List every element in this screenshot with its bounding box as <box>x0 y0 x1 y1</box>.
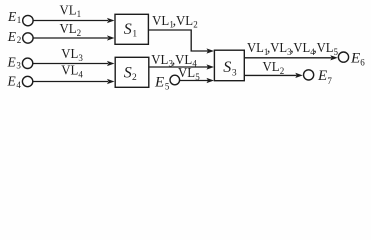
label E6 <box>350 50 365 67</box>
svg-text:VL: VL <box>178 66 195 81</box>
arrowhead into S2 bottom <box>107 79 115 84</box>
svg-text:5: 5 <box>195 72 200 82</box>
label E4 <box>7 73 22 90</box>
label VL3 on wire E3 <box>61 47 83 63</box>
arrowhead into S3 input 1 <box>207 48 215 53</box>
block S3 box <box>214 50 244 80</box>
svg-text:2: 2 <box>280 66 285 76</box>
label E5 <box>154 74 170 91</box>
label E1 <box>7 9 21 25</box>
label VL2 on wire E2 <box>60 22 82 38</box>
node E4 circle <box>22 76 32 86</box>
label S2 <box>124 65 137 83</box>
svg-text:3: 3 <box>78 53 83 63</box>
wire E3 to S2 <box>33 63 108 65</box>
svg-text:3: 3 <box>16 61 21 71</box>
svg-text:VL: VL <box>60 3 77 18</box>
label E7 <box>317 68 332 86</box>
svg-text:E: E <box>7 54 17 69</box>
label VL1,VL2 on S1 output <box>152 14 198 30</box>
wire E2 to S1 <box>33 37 108 39</box>
svg-text:VL: VL <box>176 14 193 29</box>
svg-text:VL: VL <box>61 47 78 62</box>
svg-text:VL: VL <box>317 41 334 56</box>
wire E5 to S3 <box>180 80 208 82</box>
svg-text:S: S <box>223 59 231 76</box>
wire E4 to S2 <box>33 81 108 83</box>
svg-text:4: 4 <box>16 80 21 90</box>
block S1 box <box>115 14 148 44</box>
arrowhead into S3 input 2 <box>207 64 215 69</box>
svg-text:VL: VL <box>151 53 168 68</box>
arrowhead into S1 top <box>107 18 115 23</box>
svg-text:1: 1 <box>132 29 137 39</box>
label VL5 on E5 wire <box>178 66 200 82</box>
svg-text:E: E <box>7 73 17 88</box>
label VL3,VL4 on S2 output <box>151 53 197 69</box>
wire E1 to S1 <box>33 20 108 22</box>
svg-text:7: 7 <box>327 76 332 86</box>
label S3 <box>223 59 237 79</box>
block S2 box <box>115 57 149 87</box>
node E5 circle <box>170 75 180 85</box>
label E2 <box>7 29 21 45</box>
svg-text:VL: VL <box>247 41 264 56</box>
arrowhead into S2 top <box>107 61 115 66</box>
node E1 circle <box>23 15 33 25</box>
arrowhead into E7 <box>295 73 303 78</box>
label VL1,VL3,VL4,VL5 on S3 top output <box>247 41 339 57</box>
label VL4 on wire E4 <box>61 64 83 80</box>
svg-text:4: 4 <box>78 69 83 79</box>
arrowhead into E6 <box>330 55 338 60</box>
svg-text:S: S <box>124 21 132 38</box>
svg-text:2: 2 <box>77 28 82 38</box>
svg-text:2: 2 <box>193 20 198 30</box>
svg-text:E: E <box>350 50 360 66</box>
svg-text:S: S <box>124 65 132 82</box>
svg-text:E: E <box>317 68 327 84</box>
wire S3 bottom output to E7 <box>244 74 296 76</box>
svg-text:VL: VL <box>270 41 287 56</box>
node E6 circle <box>338 52 348 62</box>
arrowhead into S1 bottom <box>107 35 115 40</box>
svg-text:5: 5 <box>165 82 170 92</box>
svg-text:1: 1 <box>17 15 22 25</box>
wire S3 top output to E6 <box>244 57 331 59</box>
svg-text:VL: VL <box>263 60 280 75</box>
arrowhead into S3 input 3 <box>207 78 215 83</box>
svg-text:E: E <box>7 9 17 24</box>
label VL2 on S3 bottom output <box>263 60 285 76</box>
label S1 <box>124 21 138 39</box>
svg-text:E: E <box>154 74 164 90</box>
svg-text:2: 2 <box>132 73 137 83</box>
svg-text:E: E <box>7 29 17 44</box>
svg-text:VL: VL <box>61 64 78 79</box>
node E2 circle <box>23 33 33 43</box>
wire S1 output horizontal <box>148 30 208 51</box>
node E3 circle <box>22 58 32 68</box>
svg-text:3: 3 <box>232 69 237 79</box>
svg-text:5: 5 <box>334 47 339 57</box>
label E3 <box>7 54 22 70</box>
svg-text:1: 1 <box>77 9 82 19</box>
svg-text:VL: VL <box>152 14 169 29</box>
svg-text:VL: VL <box>60 22 77 37</box>
node E7 circle <box>304 70 314 80</box>
wire S2 output to S3 <box>149 66 208 68</box>
svg-text:2: 2 <box>17 35 22 45</box>
svg-text:VL: VL <box>293 41 310 56</box>
label VL1 on wire E1 <box>60 3 82 19</box>
svg-text:6: 6 <box>360 57 365 67</box>
